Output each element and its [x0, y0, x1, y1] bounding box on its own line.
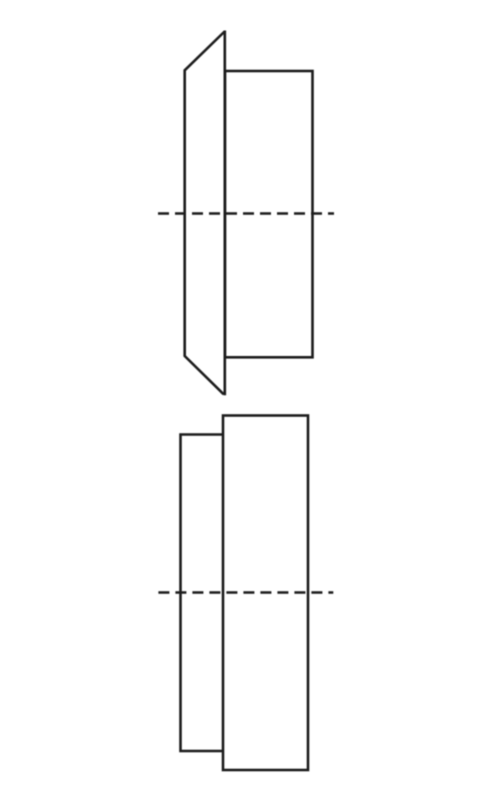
- part 1 body rectangle: [225, 71, 313, 357]
- part 1 flange right edge: [224, 31, 227, 396]
- part 2 body rectangle: [223, 416, 308, 771]
- part 2 hub (smaller collar, side profile): [181, 435, 224, 752]
- part 1 flange (beveled collar, side profile): [185, 32, 225, 395]
- part 2 centerline (dashed): [158, 591, 333, 594]
- part 1 centerline (dashed): [158, 212, 334, 215]
